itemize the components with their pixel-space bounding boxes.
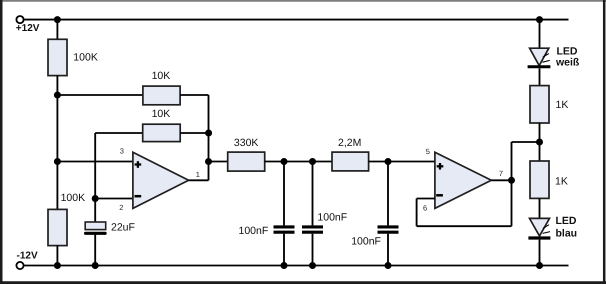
terminal +12V [16, 16, 23, 23]
junction: C3 / signal [309, 158, 316, 165]
junction: C3 / bottom rail [309, 262, 316, 269]
junction: left column / bottom rail [54, 262, 61, 269]
svg-text:1K: 1K [556, 99, 569, 111]
wire: +12V top rail [24, 19, 569, 21]
resistor 100K (top left) [48, 39, 67, 75]
junction: C4 / signal [385, 158, 392, 165]
op-amp U2 [435, 152, 491, 208]
wire: op-amp U1 + input [57, 161, 132, 163]
wire: R2 left lead [57, 94, 142, 96]
resistor 2,2M [332, 152, 369, 171]
capacitor 100nF C3 bottom lead [312, 234, 314, 266]
capacitor 22uF bottom plate [84, 232, 107, 235]
capacitor 100nF C2 bottom lead [283, 234, 285, 266]
svg-text:blau: blau [556, 228, 578, 240]
terminal -12V [16, 262, 23, 269]
svg-text:LED: LED [557, 45, 578, 57]
wire: feedback right vertical [511, 142, 513, 226]
resistor 1K (upper) [530, 86, 549, 123]
svg-text:100nF: 100nF [317, 212, 347, 224]
svg-text:10K: 10K [152, 70, 171, 82]
junction: U2 output node [508, 177, 515, 184]
junction: top rail / LED chain [536, 16, 543, 23]
wire: left column bottom segment [56, 246, 58, 266]
wire: -12V bottom rail [24, 265, 569, 267]
svg-text:weiß: weiß [555, 57, 580, 69]
resistor 100K (bottom left) [48, 209, 67, 245]
wire: 1K to junction [539, 123, 541, 161]
svg-text:3: 3 [120, 147, 124, 156]
resistor 1K (lower) [530, 161, 549, 198]
wire: left column middle segment [56, 76, 58, 210]
resistor 10K (upper) [143, 86, 180, 105]
svg-text:1: 1 [196, 170, 200, 179]
wire: 330K to 2,2M [265, 161, 332, 163]
wire: R3 right lead [180, 132, 208, 134]
wire: R2 right lead [180, 94, 208, 96]
wire: op-amp U2 output [491, 179, 511, 181]
wire: output link to LED chain [512, 141, 540, 143]
junction: left column / R2 [54, 92, 61, 99]
capacitor 100nF C4 bottom lead [387, 234, 389, 266]
junction: C2 / bottom rail [281, 262, 288, 269]
junction: R3 right / middle vertical [205, 130, 212, 137]
svg-text:100nF: 100nF [239, 225, 269, 237]
svg-text:7: 7 [499, 169, 503, 178]
junction: 330K left / middle vertical [205, 158, 212, 165]
wire: op-amp U1 - input [95, 198, 133, 200]
wire: left column top segment [56, 20, 58, 40]
wire: 22uF bottom lead [94, 235, 96, 266]
svg-text:+12V: +12V [16, 23, 40, 34]
LED weiss [528, 48, 551, 67]
wire: 330K left lead [209, 161, 228, 163]
wire: feedback bottom horizontal [417, 225, 512, 227]
capacitor 22uF top plate [85, 222, 106, 230]
junction: inner column / U1 - input [92, 195, 99, 202]
resistor 10K (lower) [143, 124, 181, 141]
svg-text:6: 6 [423, 203, 427, 212]
wire: op-amp U2 - input [417, 198, 435, 200]
junction: C2 / signal [281, 158, 288, 165]
resistor 330K [228, 152, 265, 171]
svg-text:LED: LED [556, 215, 577, 227]
svg-text:-12V: -12V [17, 251, 38, 262]
junction: top rail / R1 [54, 16, 61, 23]
wire: 1K to LED blau [539, 198, 541, 218]
wire: R3 left lead [95, 132, 143, 134]
junction: LED blau / bottom rail [536, 262, 543, 269]
wire: 2,2M to op-amp U2 [369, 161, 435, 163]
svg-text:2: 2 [119, 203, 123, 212]
capacitor 100nF C2 plates [274, 227, 295, 232]
svg-text:100nF: 100nF [351, 235, 381, 247]
junction: left column / U1 + input [54, 158, 61, 165]
junction: C4 / bottom rail [385, 262, 392, 269]
wire: op-amp U1 output [189, 179, 209, 181]
capacitor 100nF C3 plates [302, 227, 323, 232]
svg-text:1K: 1K [555, 176, 568, 188]
svg-text:100K: 100K [73, 51, 98, 63]
svg-text:330K: 330K [234, 137, 259, 149]
wire: LED chain anode lead [539, 20, 541, 48]
svg-text:2,2M: 2,2M [338, 137, 361, 149]
op-amp U1 [133, 152, 189, 208]
LED blau [528, 218, 550, 238]
capacitor 100nF C3 top lead [312, 162, 314, 226]
wire: LED blau cathode lead [539, 240, 541, 266]
junction: LED chain mid node [536, 139, 543, 146]
junction: 22uF / bottom rail [92, 262, 99, 269]
svg-text:5: 5 [426, 147, 430, 156]
capacitor 100nF C4 plates [378, 227, 399, 232]
wire: feedback left vertical [416, 199, 418, 227]
wire: LED weiss to 1K [539, 68, 541, 85]
wire: inner left vertical (R3 to 22uF) [94, 133, 96, 222]
svg-text:100K: 100K [61, 192, 86, 204]
capacitor 100nF C2 top lead [283, 162, 285, 226]
capacitor 100nF C4 top lead [387, 162, 389, 226]
svg-text:22uF: 22uF [111, 221, 135, 233]
svg-text:10K: 10K [152, 108, 171, 120]
wire: middle vertical (R2/R3 right to op-amp output) [208, 95, 210, 180]
